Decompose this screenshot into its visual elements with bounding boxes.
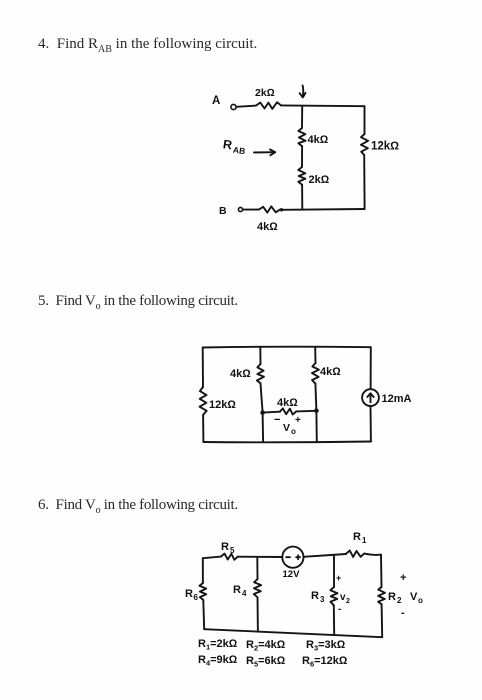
svg-text:AB: AB (232, 145, 246, 157)
svg-text:2kΩ: 2kΩ (309, 174, 330, 186)
wire to horizontal 4k (263, 411, 280, 414)
top wire R5 to source (238, 556, 283, 558)
label 4kΩ (horizontal) (277, 397, 298, 409)
svg-text:R5=6kΩ: R5=6kΩ (246, 655, 286, 669)
label 12mA (382, 393, 412, 405)
right wire lower (370, 406, 372, 442)
label R5 (221, 541, 235, 555)
svg-text:R: R (388, 591, 396, 603)
svg-text:2: 2 (346, 598, 350, 605)
problem 5 heading (38, 293, 238, 312)
right branch wire lower (363, 155, 365, 209)
svg-text:+: + (336, 573, 341, 583)
wire A to 2k resistor (236, 106, 256, 107)
source polarity - + (286, 555, 300, 559)
inner branch 1 wire lower (261, 383, 264, 442)
top wire R1 to right corner (364, 554, 381, 555)
label R1 (353, 531, 367, 545)
svg-text:4kΩ: 4kΩ (230, 368, 251, 380)
svg-text:R: R (311, 590, 319, 602)
inner branch R4 wire upper (256, 557, 258, 579)
label RAB (222, 137, 246, 156)
svg-text:4kΩ: 4kΩ (257, 221, 278, 233)
svg-text:R: R (353, 531, 361, 543)
svg-text:3: 3 (320, 595, 325, 604)
values line 2 (198, 654, 348, 669)
junction dot after bottom 4k (280, 208, 283, 211)
top wire (203, 346, 371, 349)
inner branch R4 wire lower (257, 597, 259, 631)
svg-text:1: 1 (362, 536, 367, 545)
top wire source to R1 (304, 554, 347, 557)
svg-text:R4=9kΩ: R4=9kΩ (198, 654, 238, 668)
svg-text:V: V (283, 422, 290, 434)
junction dot left of Vo resistor (260, 410, 265, 415)
resistor R2 (378, 587, 385, 604)
svg-text:12kΩ: 12kΩ (209, 399, 236, 411)
svg-text:+: + (400, 572, 406, 584)
svg-text:R6=12kΩ: R6=12kΩ (302, 655, 348, 669)
label - Vo + (274, 414, 301, 436)
resistor 2k (top) (256, 102, 281, 109)
current arrow down (300, 86, 306, 98)
left wire upper (202, 558, 204, 583)
node B label (219, 205, 227, 217)
svg-text:o: o (418, 596, 423, 605)
label 2kΩ (255, 87, 275, 99)
svg-text:V: V (410, 591, 418, 603)
right wire upper (380, 555, 383, 587)
right wire upper (370, 347, 372, 389)
svg-text:2kΩ: 2kΩ (255, 87, 275, 99)
label 4kΩ (inner left) (230, 368, 251, 380)
bottom wire to right corner (282, 208, 365, 211)
values line 1 (198, 638, 346, 653)
label 4kΩ (inner right) (320, 366, 341, 378)
wire 2k to top-right corner (281, 104, 365, 107)
left wire lower (202, 600, 205, 629)
left wire upper (202, 348, 204, 388)
label R2 (388, 591, 402, 605)
svg-text:4kΩ: 4kΩ (277, 397, 298, 409)
label 12V (283, 569, 301, 580)
node A label (212, 95, 220, 107)
inner branch R3 wire lower (333, 605, 335, 635)
resistor 4k (inner right) (312, 363, 319, 384)
problem 6 heading (38, 497, 238, 516)
svg-text:R2=4kΩ: R2=4kΩ (246, 639, 286, 653)
resistor R1 (346, 551, 364, 558)
svg-text:R: R (221, 541, 229, 553)
bottom wire (slanted) (204, 629, 382, 637)
label R3 (311, 590, 325, 604)
bottom wire (203, 441, 371, 444)
wire B to 4k resistor (243, 209, 259, 211)
resistor R5 (221, 554, 238, 560)
inner branch R3 wire upper (333, 556, 335, 587)
svg-text:5: 5 (230, 546, 235, 555)
current source 12mA (362, 389, 379, 406)
resistor 4k (bottom) (259, 206, 280, 212)
resistor 4k (horizontal, Vo) (280, 408, 296, 414)
svg-text:R3=3kΩ: R3=3kΩ (306, 639, 346, 653)
label 12kΩ (left) (209, 399, 236, 411)
wire middle branch lower (301, 185, 303, 210)
svg-text:-: - (401, 607, 405, 619)
right wire lower (381, 604, 384, 637)
label 4kΩ (bottom) (257, 221, 278, 233)
svg-text:6: 6 (194, 593, 199, 602)
voltage source 12V (282, 547, 303, 568)
label Vo with polarity (400, 572, 423, 619)
svg-text:12V: 12V (283, 569, 301, 580)
resistor 4k (middle) (298, 128, 305, 146)
svg-text:4kΩ: 4kΩ (308, 134, 329, 146)
resistor R6 (199, 583, 206, 600)
inner branch 2 wire lower (315, 384, 316, 442)
label v2 with polarity (336, 573, 350, 615)
problem 4 heading (38, 36, 257, 55)
svg-text:4: 4 (242, 589, 247, 598)
svg-text:o: o (291, 427, 296, 436)
RAB arrow (254, 150, 275, 156)
wire between 4k and 2k (301, 146, 303, 167)
inner branch 1 wire upper (259, 347, 261, 364)
label R4 (233, 584, 247, 598)
svg-text:R1=2kΩ: R1=2kΩ (198, 638, 238, 652)
label 12kΩ (371, 141, 399, 153)
terminal B (238, 207, 242, 211)
inner branch 2 wire upper (314, 347, 316, 363)
resistor R3 (330, 587, 337, 605)
svg-text:A: A (212, 95, 220, 107)
label R6 (185, 588, 199, 602)
left wire lower (202, 415, 204, 442)
svg-text:12kΩ: 12kΩ (371, 141, 399, 153)
resistor 2k (middle lower) (298, 167, 305, 185)
svg-text:2: 2 (397, 596, 402, 605)
resistor R4 (254, 579, 261, 597)
svg-text:12mA: 12mA (382, 393, 412, 405)
resistor 4k (inner left) (257, 364, 264, 383)
svg-text:−: − (274, 414, 280, 426)
resistor 12k (left) (200, 387, 207, 415)
wire middle branch upper (301, 106, 303, 128)
svg-text:R: R (222, 137, 233, 152)
top wire left segment (203, 557, 221, 559)
label 4kΩ (middle) (308, 134, 329, 146)
svg-text:B: B (219, 205, 227, 217)
resistor 12k (right) (361, 134, 368, 155)
wire from horizontal 4k (296, 410, 316, 413)
svg-text:R: R (233, 584, 241, 596)
label 2kΩ (middle lower) (309, 174, 330, 186)
svg-text:+: + (295, 415, 301, 426)
svg-text:-: - (338, 604, 341, 615)
junction dot right of Vo resistor (314, 409, 319, 414)
right branch wire upper (364, 106, 366, 134)
svg-text:4kΩ: 4kΩ (320, 366, 341, 378)
svg-text:R: R (185, 588, 193, 600)
terminal A (231, 104, 236, 109)
